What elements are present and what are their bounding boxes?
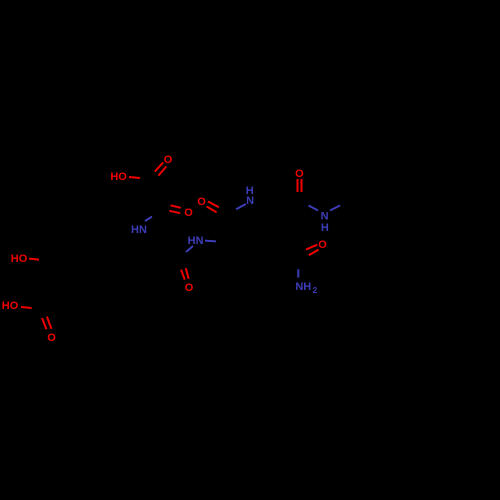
svg-text:O: O bbox=[164, 154, 173, 166]
svg-text:O: O bbox=[185, 282, 194, 294]
svg-text:O: O bbox=[47, 332, 56, 344]
svg-text:HO: HO bbox=[2, 300, 19, 312]
svg-text:H: H bbox=[321, 222, 329, 234]
svg-text:N: N bbox=[321, 210, 329, 222]
svg-text:N: N bbox=[246, 195, 254, 207]
svg-text:O: O bbox=[295, 168, 304, 180]
svg-text:O: O bbox=[184, 207, 193, 219]
svg-text:NH: NH bbox=[295, 281, 311, 293]
svg-text:HN: HN bbox=[188, 235, 204, 247]
svg-text:HO: HO bbox=[11, 253, 28, 265]
svg-text:2: 2 bbox=[313, 286, 318, 295]
svg-text:O: O bbox=[318, 239, 327, 251]
svg-text:O: O bbox=[197, 196, 206, 208]
svg-text:HO: HO bbox=[110, 171, 127, 183]
svg-text:HN: HN bbox=[131, 224, 147, 236]
